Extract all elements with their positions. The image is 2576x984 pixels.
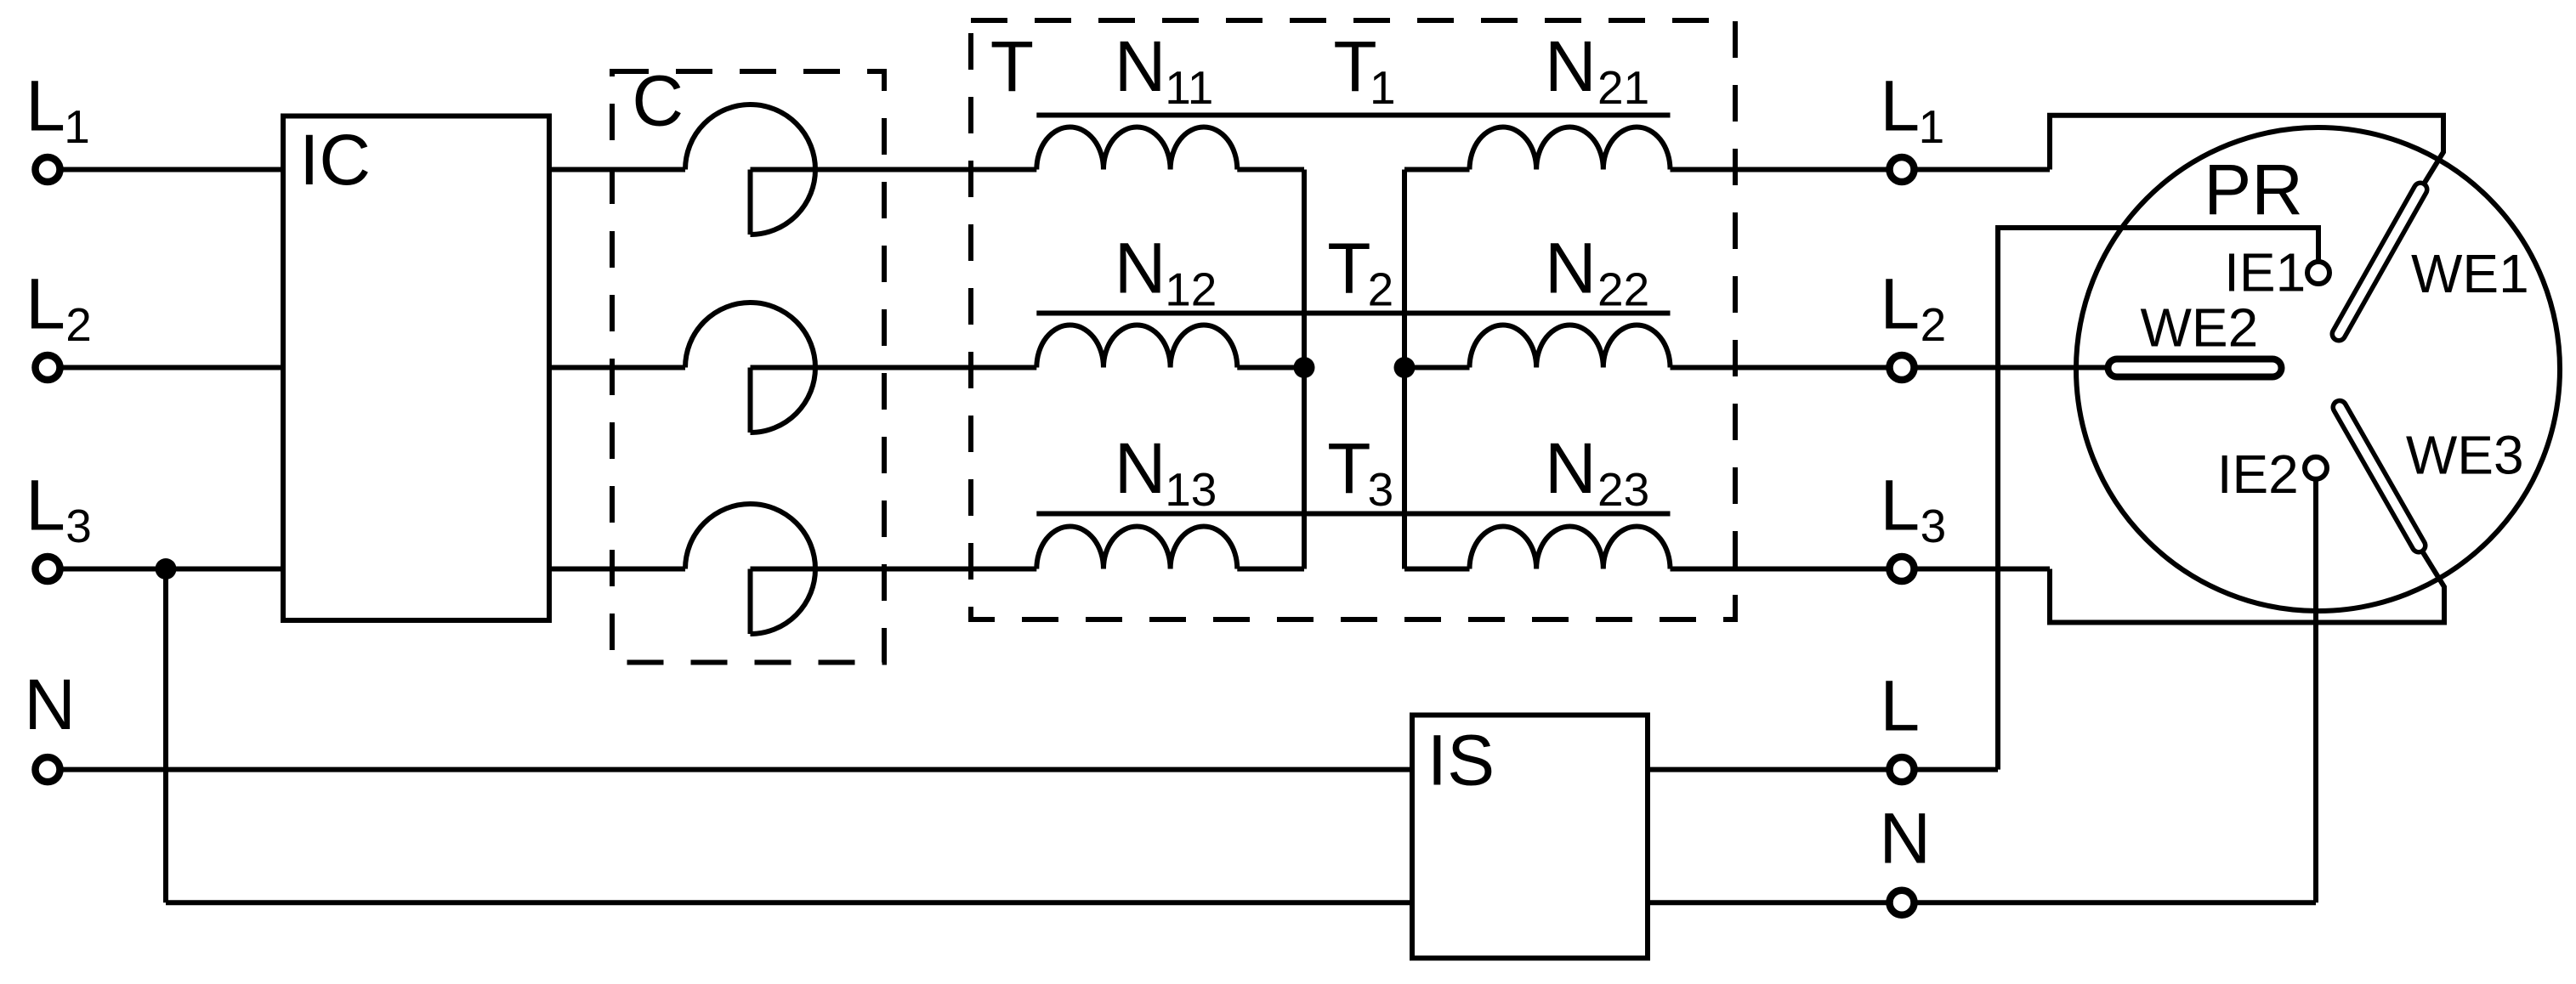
wire N to electrode IE2 bbox=[2313, 468, 2318, 903]
terminal L3 right bbox=[1890, 557, 1915, 581]
terminal L1 right bbox=[1890, 157, 1915, 182]
secondary star bus bbox=[1402, 170, 1407, 569]
svg-text:13: 13 bbox=[1165, 463, 1217, 516]
svg-text:1: 1 bbox=[64, 100, 90, 153]
current sensor 3 arc bbox=[685, 504, 815, 634]
svg-text:3: 3 bbox=[1921, 500, 1947, 552]
wire L to electrode IE1 bbox=[1998, 228, 2318, 770]
svg-text:N: N bbox=[1879, 799, 1931, 879]
wire IC out row 3 bbox=[549, 567, 685, 572]
svg-text:1: 1 bbox=[1919, 100, 1945, 153]
wire IC out row 2 bbox=[549, 365, 685, 370]
terminal L1 left bbox=[36, 157, 60, 182]
wire bottom return to IS bbox=[166, 900, 1412, 905]
svg-text:T: T bbox=[990, 26, 1034, 106]
current sensor 3 radius bbox=[748, 569, 753, 635]
wire N11 to star bus bbox=[1237, 167, 1304, 172]
current sensor 2 radius bbox=[748, 368, 753, 433]
electrode IE2 bbox=[2305, 457, 2327, 479]
wire junction L3 down bbox=[163, 569, 168, 903]
winding N13 primary bbox=[1036, 526, 1237, 568]
svg-text:C: C bbox=[632, 61, 684, 141]
wire L3 bracket to WE3 bbox=[2050, 546, 2444, 623]
svg-text:IE1: IE1 bbox=[2224, 242, 2306, 303]
svg-text:21: 21 bbox=[1597, 61, 1649, 114]
current sensor 1 arc bbox=[685, 105, 815, 235]
wire N21 output bbox=[1671, 167, 2051, 172]
wire IC out row 1 bbox=[549, 167, 685, 172]
svg-text:L: L bbox=[26, 65, 65, 145]
svg-text:2: 2 bbox=[1368, 263, 1394, 316]
svg-text:22: 22 bbox=[1597, 263, 1649, 316]
terminal N left bbox=[36, 757, 60, 782]
terminal L2 right bbox=[1890, 355, 1915, 380]
wire sensor to transformer row 1 bbox=[751, 167, 1037, 172]
svg-text:WE1: WE1 bbox=[2411, 243, 2529, 304]
svg-text:N: N bbox=[1545, 26, 1597, 106]
heating element WE3 core bbox=[2340, 407, 2419, 546]
svg-text:WE2: WE2 bbox=[2141, 297, 2259, 359]
electrode IE1 bbox=[2307, 262, 2329, 284]
wire star bus to N23 bbox=[1404, 567, 1470, 572]
svg-text:IS: IS bbox=[1427, 721, 1495, 800]
dashed box C bbox=[612, 71, 884, 663]
wire N13 to star bus bbox=[1237, 567, 1304, 572]
svg-text:L: L bbox=[26, 465, 65, 545]
svg-text:L: L bbox=[1880, 465, 1920, 545]
svg-text:L: L bbox=[1880, 263, 1920, 343]
winding N21 secondary bbox=[1470, 127, 1671, 169]
wire N22 output bbox=[1671, 365, 2109, 370]
core bar T3 bbox=[1036, 512, 1670, 517]
svg-text:3: 3 bbox=[65, 500, 92, 552]
svg-text:N: N bbox=[24, 664, 76, 744]
svg-text:23: 23 bbox=[1597, 463, 1649, 516]
svg-text:N: N bbox=[1115, 26, 1166, 106]
wire N12 to star bus bbox=[1237, 365, 1304, 370]
svg-text:IC: IC bbox=[299, 120, 371, 200]
core bar T2 bbox=[1036, 311, 1670, 316]
svg-text:PR: PR bbox=[2204, 150, 2303, 229]
wire L3 terminal to IC bbox=[51, 567, 283, 572]
svg-text:N: N bbox=[1115, 428, 1166, 508]
block IC bbox=[283, 116, 549, 621]
svg-text:N: N bbox=[1545, 428, 1597, 508]
terminal L3 left bbox=[36, 557, 60, 581]
terminal N IS out bbox=[1890, 891, 1915, 915]
terminal L IS out bbox=[1890, 757, 1915, 782]
svg-text:N: N bbox=[1115, 229, 1166, 308]
wire star bus to N21 bbox=[1404, 167, 1470, 172]
svg-text:12: 12 bbox=[1165, 263, 1217, 316]
heating element WE1 core bbox=[2339, 189, 2420, 334]
heating element WE2 bbox=[2117, 356, 2272, 381]
heating element WE3 bbox=[2340, 407, 2419, 546]
svg-text:IE2: IE2 bbox=[2217, 444, 2299, 505]
winding N23 secondary bbox=[1470, 526, 1671, 568]
svg-text:N: N bbox=[1545, 229, 1597, 308]
block IS bbox=[1412, 715, 1648, 959]
wire L2 terminal to IC bbox=[51, 365, 283, 370]
svg-text:3: 3 bbox=[1368, 463, 1394, 516]
wire IS L output bbox=[1648, 767, 1998, 772]
burner plate PR outline bbox=[2076, 127, 2560, 611]
wire L1 terminal to IC bbox=[51, 167, 283, 172]
wire star bus to N22 bbox=[1404, 365, 1470, 370]
wire L1 bracket to WE1 bbox=[2050, 116, 2443, 189]
wire IS N output bbox=[1648, 900, 2316, 905]
svg-text:1: 1 bbox=[1370, 61, 1396, 114]
svg-text:WE3: WE3 bbox=[2406, 424, 2524, 485]
dashed box T bbox=[971, 20, 1735, 619]
winding N22 secondary bbox=[1470, 325, 1671, 367]
current sensor 2 arc bbox=[685, 303, 815, 433]
wire N23 output bbox=[1671, 567, 2051, 572]
wire sensor to transformer row 3 bbox=[751, 567, 1037, 572]
core bar T1 bbox=[1036, 113, 1670, 118]
winding N12 primary bbox=[1036, 325, 1237, 367]
wire sensor to transformer row 2 bbox=[751, 365, 1037, 370]
wire N terminal to IS bbox=[51, 767, 1412, 772]
junction primary star bbox=[1294, 357, 1315, 378]
svg-text:2: 2 bbox=[65, 298, 92, 351]
heating element WE1 bbox=[2339, 189, 2420, 334]
heating element WE2 core bbox=[2117, 363, 2272, 374]
svg-text:T: T bbox=[1327, 428, 1370, 508]
svg-text:L: L bbox=[26, 263, 65, 343]
current sensor 1 radius bbox=[748, 170, 753, 235]
svg-text:L: L bbox=[1880, 666, 1920, 746]
svg-text:11: 11 bbox=[1165, 61, 1213, 114]
svg-text:2: 2 bbox=[1921, 298, 1947, 351]
svg-text:T: T bbox=[1327, 229, 1370, 308]
primary star bus bbox=[1302, 170, 1307, 569]
junction secondary star bbox=[1394, 357, 1416, 378]
svg-text:L: L bbox=[1880, 65, 1920, 145]
terminal L2 left bbox=[36, 355, 60, 380]
winding N11 primary bbox=[1036, 127, 1237, 169]
junction L3 tap bbox=[156, 558, 177, 580]
